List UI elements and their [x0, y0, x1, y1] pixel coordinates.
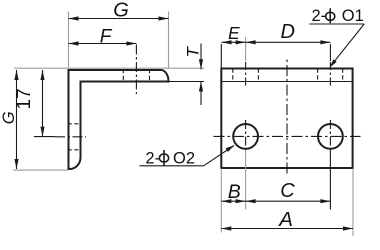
dimension B line — [221, 200, 245, 202]
svg-text:2-: 2- — [145, 150, 160, 168]
hole2 vertical center line — [329, 120, 331, 153]
band hole1 center line — [245, 62, 247, 88]
dimension E line — [222, 41, 246, 43]
svg-text:F: F — [100, 26, 113, 47]
bend line (vertical flange edge seen from above) — [221, 81, 352, 83]
arrow G top left — [69, 16, 79, 20]
leg hole hidden line upper — [68, 123, 82, 125]
flange hole hidden line left — [122, 69, 124, 83]
svg-text:17: 17 — [14, 88, 35, 109]
ext hole1 bottom (gray) — [245, 150, 247, 210]
band hole2 center line — [329, 62, 331, 88]
phi symbol O2 — [159, 154, 168, 162]
svg-text:G: G — [0, 111, 18, 124]
leader arrow O1 — [330, 59, 337, 67]
T dim lower line with up arrow — [200, 82, 202, 106]
arrow F left — [69, 41, 79, 45]
leader arrow O2 — [226, 145, 235, 152]
ext E left — [220, 44, 222, 68]
leader line O2 — [204, 146, 234, 166]
flange hole center line — [135, 45, 137, 95]
ext hole2 top — [329, 44, 331, 61]
ext A right (gray) — [352, 169, 354, 237]
horizontal center line through holes — [214, 135, 361, 137]
arrow C right — [320, 199, 330, 203]
plan outline box — [221, 69, 352, 169]
T dim upper line with down arrow — [200, 44, 202, 70]
arrow 17 bottom — [40, 127, 44, 137]
flange hole hidden line right — [149, 69, 151, 83]
arrow B right — [236, 199, 246, 203]
arrow C left — [246, 199, 256, 203]
band hole1 hidden edge left — [232, 69, 234, 82]
ext A/B left (gray) — [220, 169, 222, 233]
svg-text:D: D — [281, 21, 295, 43]
svg-text:O1: O1 — [342, 7, 364, 25]
svg-text:C: C — [280, 180, 295, 202]
arrow A right — [343, 226, 353, 230]
underline of 2-phi O1 — [309, 23, 364, 25]
dimension 17 vertical line — [42, 70, 44, 137]
band hole2 hidden edge left — [317, 69, 319, 82]
arrow G left bottom — [14, 159, 18, 169]
arrow E right — [236, 40, 246, 44]
svg-text:B: B — [228, 181, 241, 203]
arrow 17 top — [40, 70, 44, 80]
dimension C line — [246, 200, 331, 202]
arrow G left top — [14, 70, 18, 80]
extension line for 17 dim tick — [34, 136, 55, 138]
arrow A left — [221, 226, 231, 230]
arrow E left — [222, 40, 232, 44]
dimension F line — [69, 43, 137, 45]
arrow G top right — [159, 16, 169, 20]
svg-text:2-: 2- — [312, 7, 327, 25]
arrow T lower — [199, 82, 203, 92]
arrow D left — [246, 40, 256, 44]
extension line top horizontal (gray, spans left view) — [14, 67, 204, 69]
part vertical center line — [286, 58, 288, 176]
arrow B left — [221, 199, 231, 203]
T dim extension: flange inner line extended right — [169, 81, 205, 83]
svg-text:G: G — [113, 0, 129, 22]
dimension G left vertical line — [16, 70, 18, 169]
ext hole1 top (gray) — [245, 37, 247, 61]
svg-text:A: A — [277, 208, 293, 231]
arrow D right — [320, 40, 330, 44]
leader line O1 — [330, 24, 364, 66]
band hole2 hidden edge right — [342, 69, 344, 82]
hole circle left (phi O2) — [233, 124, 258, 149]
extension line right flange end vertical (up to G dim) — [168, 12, 170, 69]
extension line left outer corner vertical (up to top dims) — [68, 12, 70, 68]
underline of 2-phi O2 — [140, 165, 204, 167]
dimension G top line — [69, 18, 169, 20]
svg-text:T: T — [184, 46, 203, 58]
hole circle right (phi O2) — [318, 124, 343, 149]
band hole1 hidden edge right — [257, 69, 259, 82]
ext hole2 bottom (black) — [329, 150, 331, 210]
extension line bottom of leg (gray) — [13, 169, 68, 171]
svg-text:E: E — [228, 23, 240, 43]
arrow F right — [126, 41, 136, 45]
hole1 vertical center line — [245, 120, 247, 153]
dimension D line — [246, 41, 331, 43]
arrow T upper — [199, 59, 203, 69]
L-bracket profile outline — [69, 70, 169, 169]
phi symbol O1 — [326, 12, 335, 20]
svg-text:O2: O2 — [173, 150, 195, 168]
dimension A line — [221, 228, 353, 230]
leg hole center line — [55, 136, 86, 138]
leg hole hidden line lower — [68, 149, 82, 151]
